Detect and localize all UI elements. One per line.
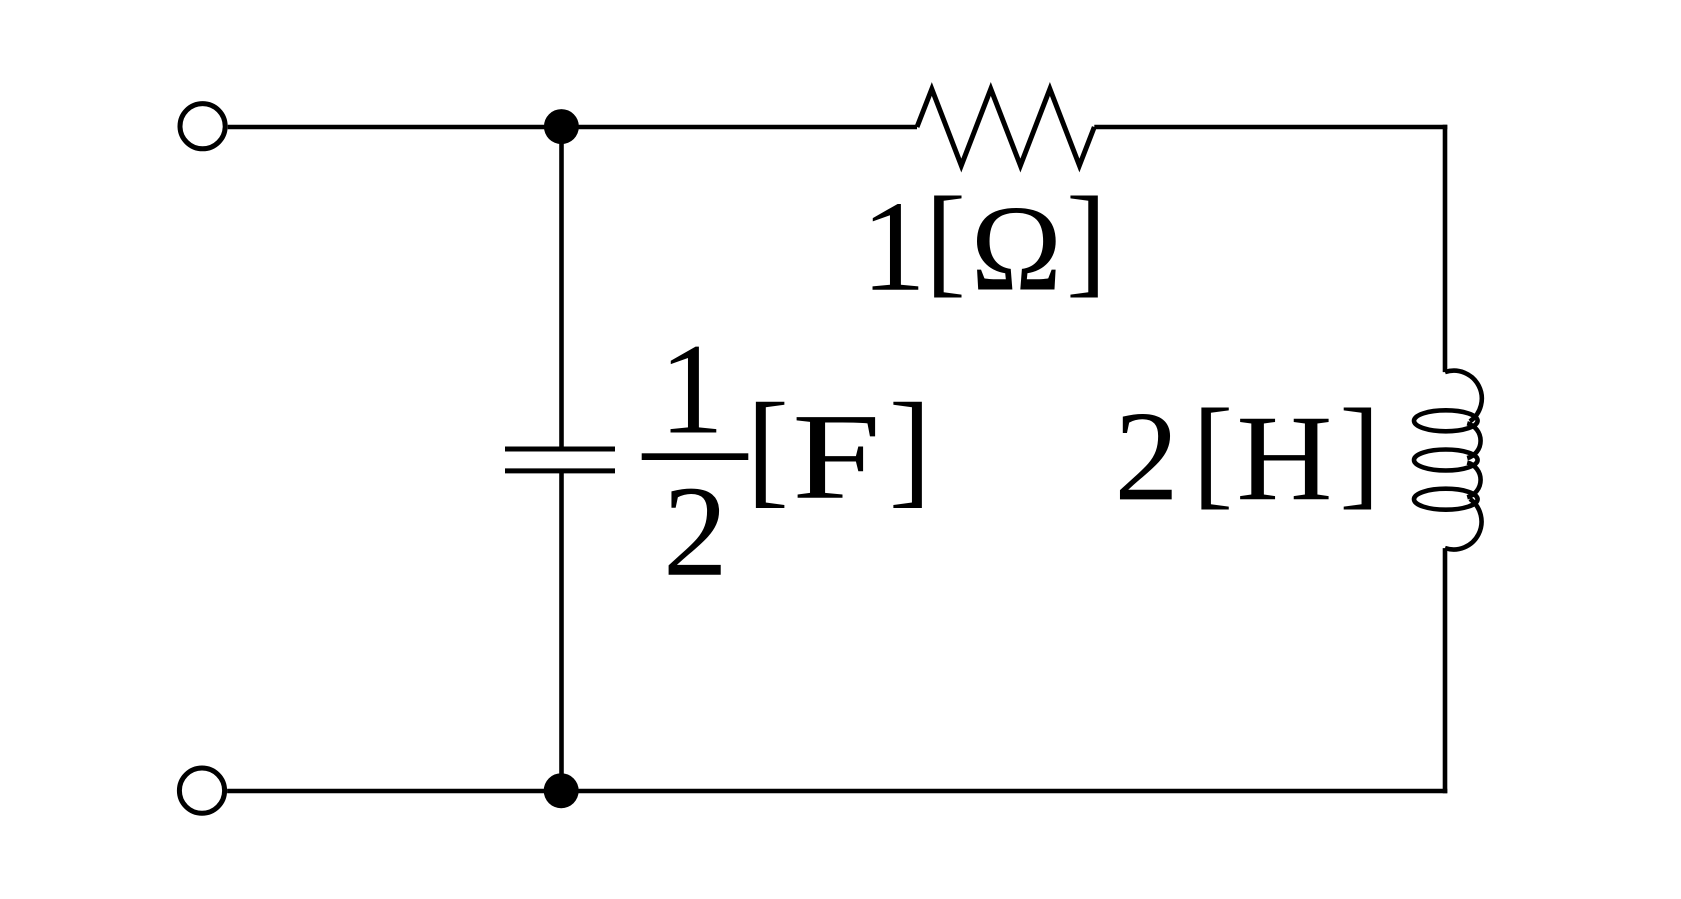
svg-text:1: 1 xyxy=(861,175,926,319)
svg-text:[: [ xyxy=(925,171,966,308)
wire right vertical upper xyxy=(1443,125,1448,372)
svg-text:[: [ xyxy=(1192,383,1233,520)
svg-text:]: ] xyxy=(1066,171,1107,308)
svg-text:[: [ xyxy=(746,377,789,519)
svg-text:H: H xyxy=(1236,389,1332,526)
label C fraction bar xyxy=(642,453,749,460)
svg-text:]: ] xyxy=(889,377,932,519)
terminal T1 (top-left open circle) xyxy=(180,104,225,149)
svg-text:F: F xyxy=(792,388,881,525)
capacitor C top plate xyxy=(505,447,615,452)
capacitor C bottom plate xyxy=(505,468,615,473)
inductor L top lead-in arc xyxy=(1445,371,1482,422)
inductor bump arc 1 xyxy=(1467,423,1480,458)
resistor R zigzag xyxy=(917,89,1094,166)
inductor loop 2 xyxy=(1414,450,1478,471)
wire right vertical lower xyxy=(1443,548,1448,793)
terminal T2 (bottom-left open circle) xyxy=(179,768,224,813)
wire capacitor branch lower xyxy=(559,471,564,791)
wire top-right horizontal xyxy=(1094,125,1447,130)
inductor loop 1 xyxy=(1414,410,1478,431)
inductor bump arc 2 xyxy=(1467,463,1480,498)
svg-text:1: 1 xyxy=(659,318,724,462)
svg-text:2: 2 xyxy=(663,460,728,604)
inductor bottom lead-out arc xyxy=(1445,499,1482,550)
svg-text:]: ] xyxy=(1339,383,1380,520)
node B (bottom junction dot) xyxy=(544,773,579,808)
svg-text:Ω: Ω xyxy=(971,180,1062,317)
wire bottom horizontal xyxy=(227,789,1447,794)
svg-text:2: 2 xyxy=(1114,384,1179,527)
node A (top junction dot) xyxy=(544,109,579,144)
inductor loop 3 xyxy=(1414,489,1478,510)
wire capacitor branch upper xyxy=(559,127,564,449)
wire top-left horizontal xyxy=(228,125,917,130)
